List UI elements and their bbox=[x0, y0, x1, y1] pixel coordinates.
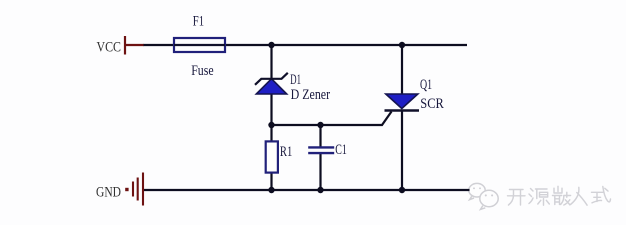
wire: gate node horizontal (zener to SCR gate) bbox=[272, 112, 392, 126]
SCR Q1 bbox=[385, 94, 420, 111]
svg-text:C1: C1 bbox=[335, 142, 347, 158]
svg-text:D Zener: D Zener bbox=[291, 87, 331, 103]
ground pin dot bbox=[125, 188, 128, 191]
svg-text:GND: GND bbox=[96, 185, 121, 201]
svg-text:VCC: VCC bbox=[97, 40, 122, 56]
char 嵌 bbox=[553, 186, 571, 205]
char 开 bbox=[508, 190, 526, 206]
capacitor C1 bbox=[308, 147, 334, 153]
svg-text:F1: F1 bbox=[193, 14, 204, 30]
ground symbol GND (three-bar power ground, maroon) bbox=[133, 173, 143, 206]
wire: zener/R1 vertical branch bbox=[270, 45, 272, 142]
wire: C1 top lead bbox=[319, 125, 321, 147]
svg-text:Q1: Q1 bbox=[420, 77, 432, 93]
svg-text:R1: R1 bbox=[280, 144, 292, 160]
wire: R1 bottom lead bbox=[270, 172, 272, 190]
junction: bottom rail / R1 bbox=[268, 187, 274, 193]
zener diode D1 bbox=[255, 73, 288, 94]
wire: C1 bottom lead bbox=[319, 153, 321, 190]
junction: top rail / SCR anode bbox=[399, 42, 405, 48]
char 源 bbox=[529, 189, 549, 206]
power port VCC (bar symbol, maroon) bbox=[125, 36, 144, 55]
char 入 bbox=[571, 187, 588, 205]
svg-text:Fuse: Fuse bbox=[191, 63, 213, 79]
watermark text 开源嵌入式 (drawn strokes) bbox=[508, 186, 611, 205]
char 式 bbox=[592, 187, 611, 203]
watermark wechat icon bbox=[469, 183, 498, 209]
junction: gate node / C1 bbox=[317, 122, 323, 128]
junction: bottom rail / C1 bbox=[317, 187, 323, 193]
svg-text:D1: D1 bbox=[290, 72, 301, 88]
svg-text:SCR: SCR bbox=[420, 96, 444, 112]
wire: SCR anode lead bbox=[401, 45, 403, 94]
junction: bottom rail / SCR cathode bbox=[399, 187, 405, 193]
wire: SCR cathode lead bbox=[401, 111, 403, 191]
resistor R1 (box style) bbox=[266, 141, 278, 172]
wire: top rail VCC net bbox=[143, 44, 467, 46]
fuse F1 bbox=[174, 38, 225, 52]
wire: bottom rail GND net bbox=[144, 189, 470, 191]
junction: gate node / zener-R1 bbox=[268, 122, 274, 128]
junction: top rail / zener bbox=[268, 42, 274, 48]
